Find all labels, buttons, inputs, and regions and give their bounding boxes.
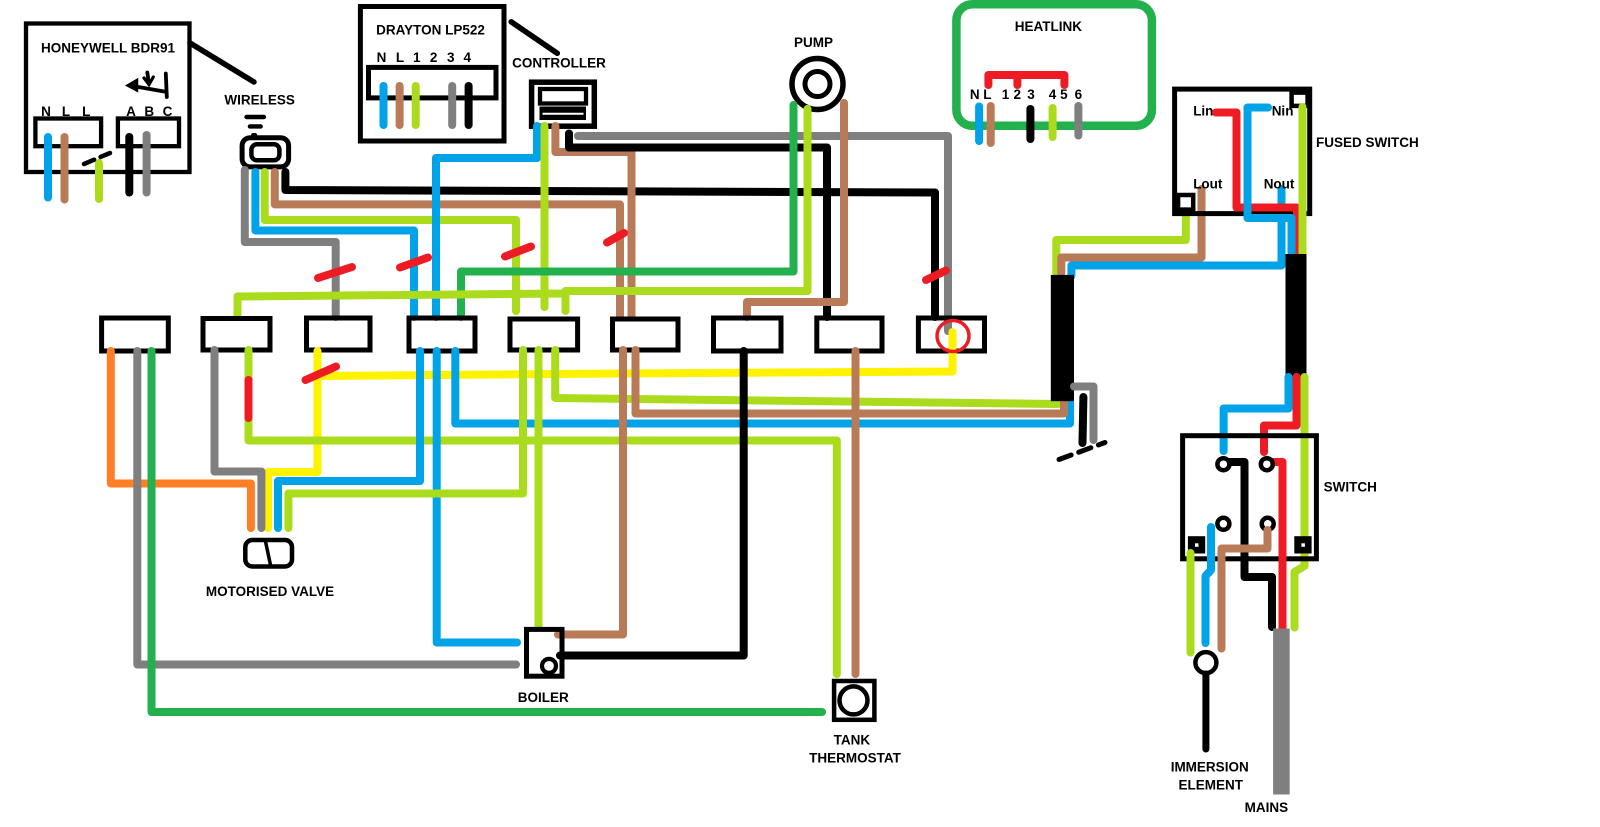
wire lime term2 riser (238, 294, 567, 318)
red link bracket (988, 75, 1064, 85)
wire grey 3 pigtail (448, 86, 456, 125)
wire lime 5 stub (1049, 108, 1057, 137)
svg-text:L: L (396, 50, 404, 65)
wire brown pump-to-term7 (747, 103, 844, 317)
wire brown L pigtail (396, 86, 404, 125)
svg-text:ELEMENT: ELEMENT (1178, 778, 1243, 793)
callout line to controller (511, 22, 557, 54)
svg-text:A: A (126, 104, 136, 119)
wire brown term6-to-junction1 (636, 350, 1065, 414)
terminal block 9 (918, 318, 984, 351)
wire yellow term3-to-valve (268, 351, 318, 528)
wire blue switch-to-immersion (1206, 527, 1212, 643)
wire black 4 pigtail (465, 86, 473, 125)
wire brown controller-to-term6 (555, 126, 631, 317)
wire lime earth-to-junction2 (1299, 107, 1307, 256)
wire green term1-to-tankstat (152, 351, 823, 712)
wire grey term1-to-boiler (137, 351, 516, 665)
switch earth terminal left (1188, 536, 1205, 553)
wire blue term4-to-valve (278, 351, 420, 528)
svg-text:2: 2 (1013, 87, 1021, 102)
relay switch symbol (128, 73, 167, 98)
wire grey term2-to-valve (215, 350, 262, 528)
relay box HONEYWELL BDR91 (26, 24, 190, 173)
svg-text:FUSED SWITCH: FUSED SWITCH (1316, 135, 1419, 150)
wire black switch internal (1229, 462, 1272, 627)
motorised valve flap (266, 542, 271, 566)
terminal block 3 (307, 318, 371, 350)
wire lime fusedswitch-to-junction1 (1056, 204, 1186, 273)
wire brown term8-to-tankstat (852, 351, 860, 674)
svg-text:1: 1 (1002, 87, 1010, 102)
wire brown fusedswitch-to-junction1 (1061, 189, 1201, 273)
heatlink enclosure (956, 4, 1152, 126)
switch box (1183, 436, 1317, 559)
tank thermostat dial (840, 686, 868, 714)
wire brown wireless-to-term6 (275, 172, 620, 317)
cut mark on lime earth drop (245, 380, 253, 418)
svg-text:3: 3 (447, 50, 455, 65)
svg-text:L: L (62, 104, 70, 119)
junction block 2 (1286, 254, 1307, 378)
immersion element head (1195, 652, 1216, 673)
svg-text:Lout: Lout (1193, 177, 1223, 192)
svg-text:4: 4 (1049, 87, 1057, 102)
svg-text:IMMERSION: IMMERSION (1171, 760, 1249, 775)
terminal block 2 (203, 319, 270, 351)
wire lime term2-to-tankstat (249, 350, 837, 674)
terminal block 5 (510, 319, 578, 350)
svg-text:1: 1 (413, 50, 421, 65)
junction block 1 (1051, 275, 1074, 401)
svg-text:N: N (41, 104, 51, 119)
wire grey controller-to-term9 (578, 136, 948, 331)
svg-text:6: 6 (1075, 87, 1083, 102)
svg-text:MAINS: MAINS (1245, 800, 1289, 815)
wire orange term1-to-valve (111, 351, 251, 528)
svg-text:4: 4 (464, 50, 472, 65)
wire green pump-to-term4 (461, 105, 794, 317)
svg-text:CONTROLLER: CONTROLLER (512, 56, 606, 71)
wire brown L stub (987, 106, 995, 143)
cut mark on black wire (926, 271, 946, 281)
wire yellow term9-to-term3 link (318, 332, 953, 376)
dashed link mark (84, 153, 110, 164)
wire lime 1 pigtail (412, 86, 420, 125)
switch earth terminal right (1294, 536, 1311, 553)
svg-text:BOILER: BOILER (518, 690, 569, 705)
controller button bar (540, 107, 587, 121)
svg-text:MOTORISED VALVE: MOTORISED VALVE (206, 584, 334, 599)
wire lime term5-to-junction1 (555, 350, 1058, 404)
terminal block N L L (35, 119, 101, 147)
wire brown switch-to-immersion (1222, 530, 1268, 649)
svg-text:3: 3 (1027, 87, 1035, 102)
wire black 3 stub (1026, 109, 1034, 139)
terminal block 6 (613, 319, 679, 350)
wire grey B pigtail (143, 135, 151, 193)
wire grey 6 stub (1074, 106, 1082, 136)
cut mark on brown wire (607, 233, 624, 243)
switch earth terminal right dot (1301, 543, 1305, 547)
wire blue N pigtail (380, 86, 388, 125)
svg-text:Nin: Nin (1272, 104, 1294, 119)
svg-text:5: 5 (1060, 87, 1068, 102)
switch terminal circle top right (1261, 458, 1273, 470)
svg-text:DRAYTON LP522: DRAYTON LP522 (376, 23, 485, 38)
fused switch box (1175, 89, 1310, 214)
wire black wireless-to-term9 (285, 172, 935, 317)
wireless receiver display (251, 144, 279, 160)
cut mark on blue wire (400, 258, 428, 268)
svg-text:N: N (970, 87, 980, 102)
terminal block A B C (118, 119, 179, 147)
wire blue controller-to-term4 (436, 126, 537, 317)
wire lime wireless-to-term5 (265, 172, 516, 311)
svg-text:Lin: Lin (1193, 104, 1213, 119)
programmer terminal strip (369, 67, 497, 98)
wire grey junction1 tail (1074, 387, 1094, 441)
svg-text:B: B (144, 104, 154, 119)
wire blue junction2-to-switch (1224, 377, 1289, 451)
pump outer circle (792, 59, 843, 110)
switch terminal circle bottom left (1217, 518, 1229, 530)
programmer box DRAYTON LP522 (360, 7, 504, 142)
wire blue term4-to-junction1 (455, 351, 1070, 424)
svg-text:THERMOSTAT: THERMOSTAT (809, 751, 901, 766)
wire brown L pigtail (61, 137, 69, 200)
wire black junction1 tail (1079, 397, 1088, 443)
svg-text:PUMP: PUMP (794, 35, 833, 50)
wire green earth pigtail (95, 163, 103, 199)
svg-text:L: L (82, 104, 90, 119)
mains cable (1273, 629, 1290, 795)
fused switch corner terminal top right (1292, 93, 1308, 106)
svg-text:Nout: Nout (1264, 177, 1295, 192)
wire black A pigtail (125, 137, 133, 193)
svg-text:TANK: TANK (834, 733, 871, 748)
wire blue term4-to-boiler (437, 351, 517, 643)
cut mark on grey wire (318, 267, 352, 278)
cut mark on yellow wire (306, 367, 337, 381)
wire grey wireless-to-term3 (245, 170, 336, 317)
controller body (532, 82, 595, 126)
wire blue N stub (975, 107, 983, 142)
tank thermostat body (834, 681, 874, 720)
terminal block 1 (102, 318, 169, 351)
wire blue fusedswitch-to-junction1 (1071, 189, 1281, 276)
svg-text:N: N (377, 50, 387, 65)
wire red switch-to-mains (1271, 462, 1283, 628)
svg-text:2: 2 (430, 50, 438, 65)
immersion element rod (1202, 674, 1209, 749)
svg-text:HONEYWELL BDR91: HONEYWELL BDR91 (41, 41, 176, 56)
terminal block 4 (409, 318, 475, 351)
svg-text:C: C (163, 104, 173, 119)
wire lime term5-to-boiler (535, 350, 543, 626)
switch earth terminal left dot (1195, 543, 1199, 547)
highlight circle on term9 (937, 321, 969, 352)
wireless antenna waves (244, 115, 266, 138)
callout line to wireless (190, 43, 254, 82)
wireless receiver body (242, 138, 289, 167)
terminal block 8 (817, 318, 882, 351)
wire red junction2-to-switch (1264, 377, 1297, 452)
wire lime junction2-to-mains (1295, 377, 1305, 628)
wire blue N pigtail (44, 137, 52, 198)
red link bracket tick (1013, 75, 1021, 85)
svg-text:SWITCH: SWITCH (1324, 480, 1377, 495)
wire lime switch-to-immersion (1187, 553, 1195, 653)
wire blue Nin-to-junction2 (1248, 108, 1292, 257)
controller display window (540, 89, 586, 104)
switch terminal circle bottom right (1262, 518, 1274, 530)
svg-text:HEATLINK: HEATLINK (1015, 19, 1082, 34)
controller button slot (543, 113, 584, 115)
wire lime controller-to-term5 (541, 126, 549, 307)
motorised valve body (245, 540, 292, 567)
dashed continuation mark (1059, 443, 1105, 460)
switch terminal circle top left (1217, 458, 1229, 470)
boiler knob (542, 659, 556, 673)
wire black term7-to-boiler (560, 351, 744, 656)
wire black controller-to-term8 (569, 134, 827, 318)
svg-text:L: L (983, 87, 991, 102)
fused switch corner terminal bottom left (1178, 195, 1193, 210)
boiler body (527, 629, 563, 676)
wire red Lin-to-junction2 (1216, 113, 1297, 257)
terminal block 7 (714, 318, 782, 351)
cut mark on lime wire (505, 247, 531, 257)
wire blue wireless-to-term4 (255, 172, 414, 317)
svg-text:WIRELESS: WIRELESS (224, 93, 295, 108)
pump inner circle (805, 72, 830, 97)
wire lime term5-to-valve (288, 350, 523, 528)
wire lime pump-to-term5 (566, 109, 808, 311)
wire brown term6-to-boiler (558, 350, 623, 635)
